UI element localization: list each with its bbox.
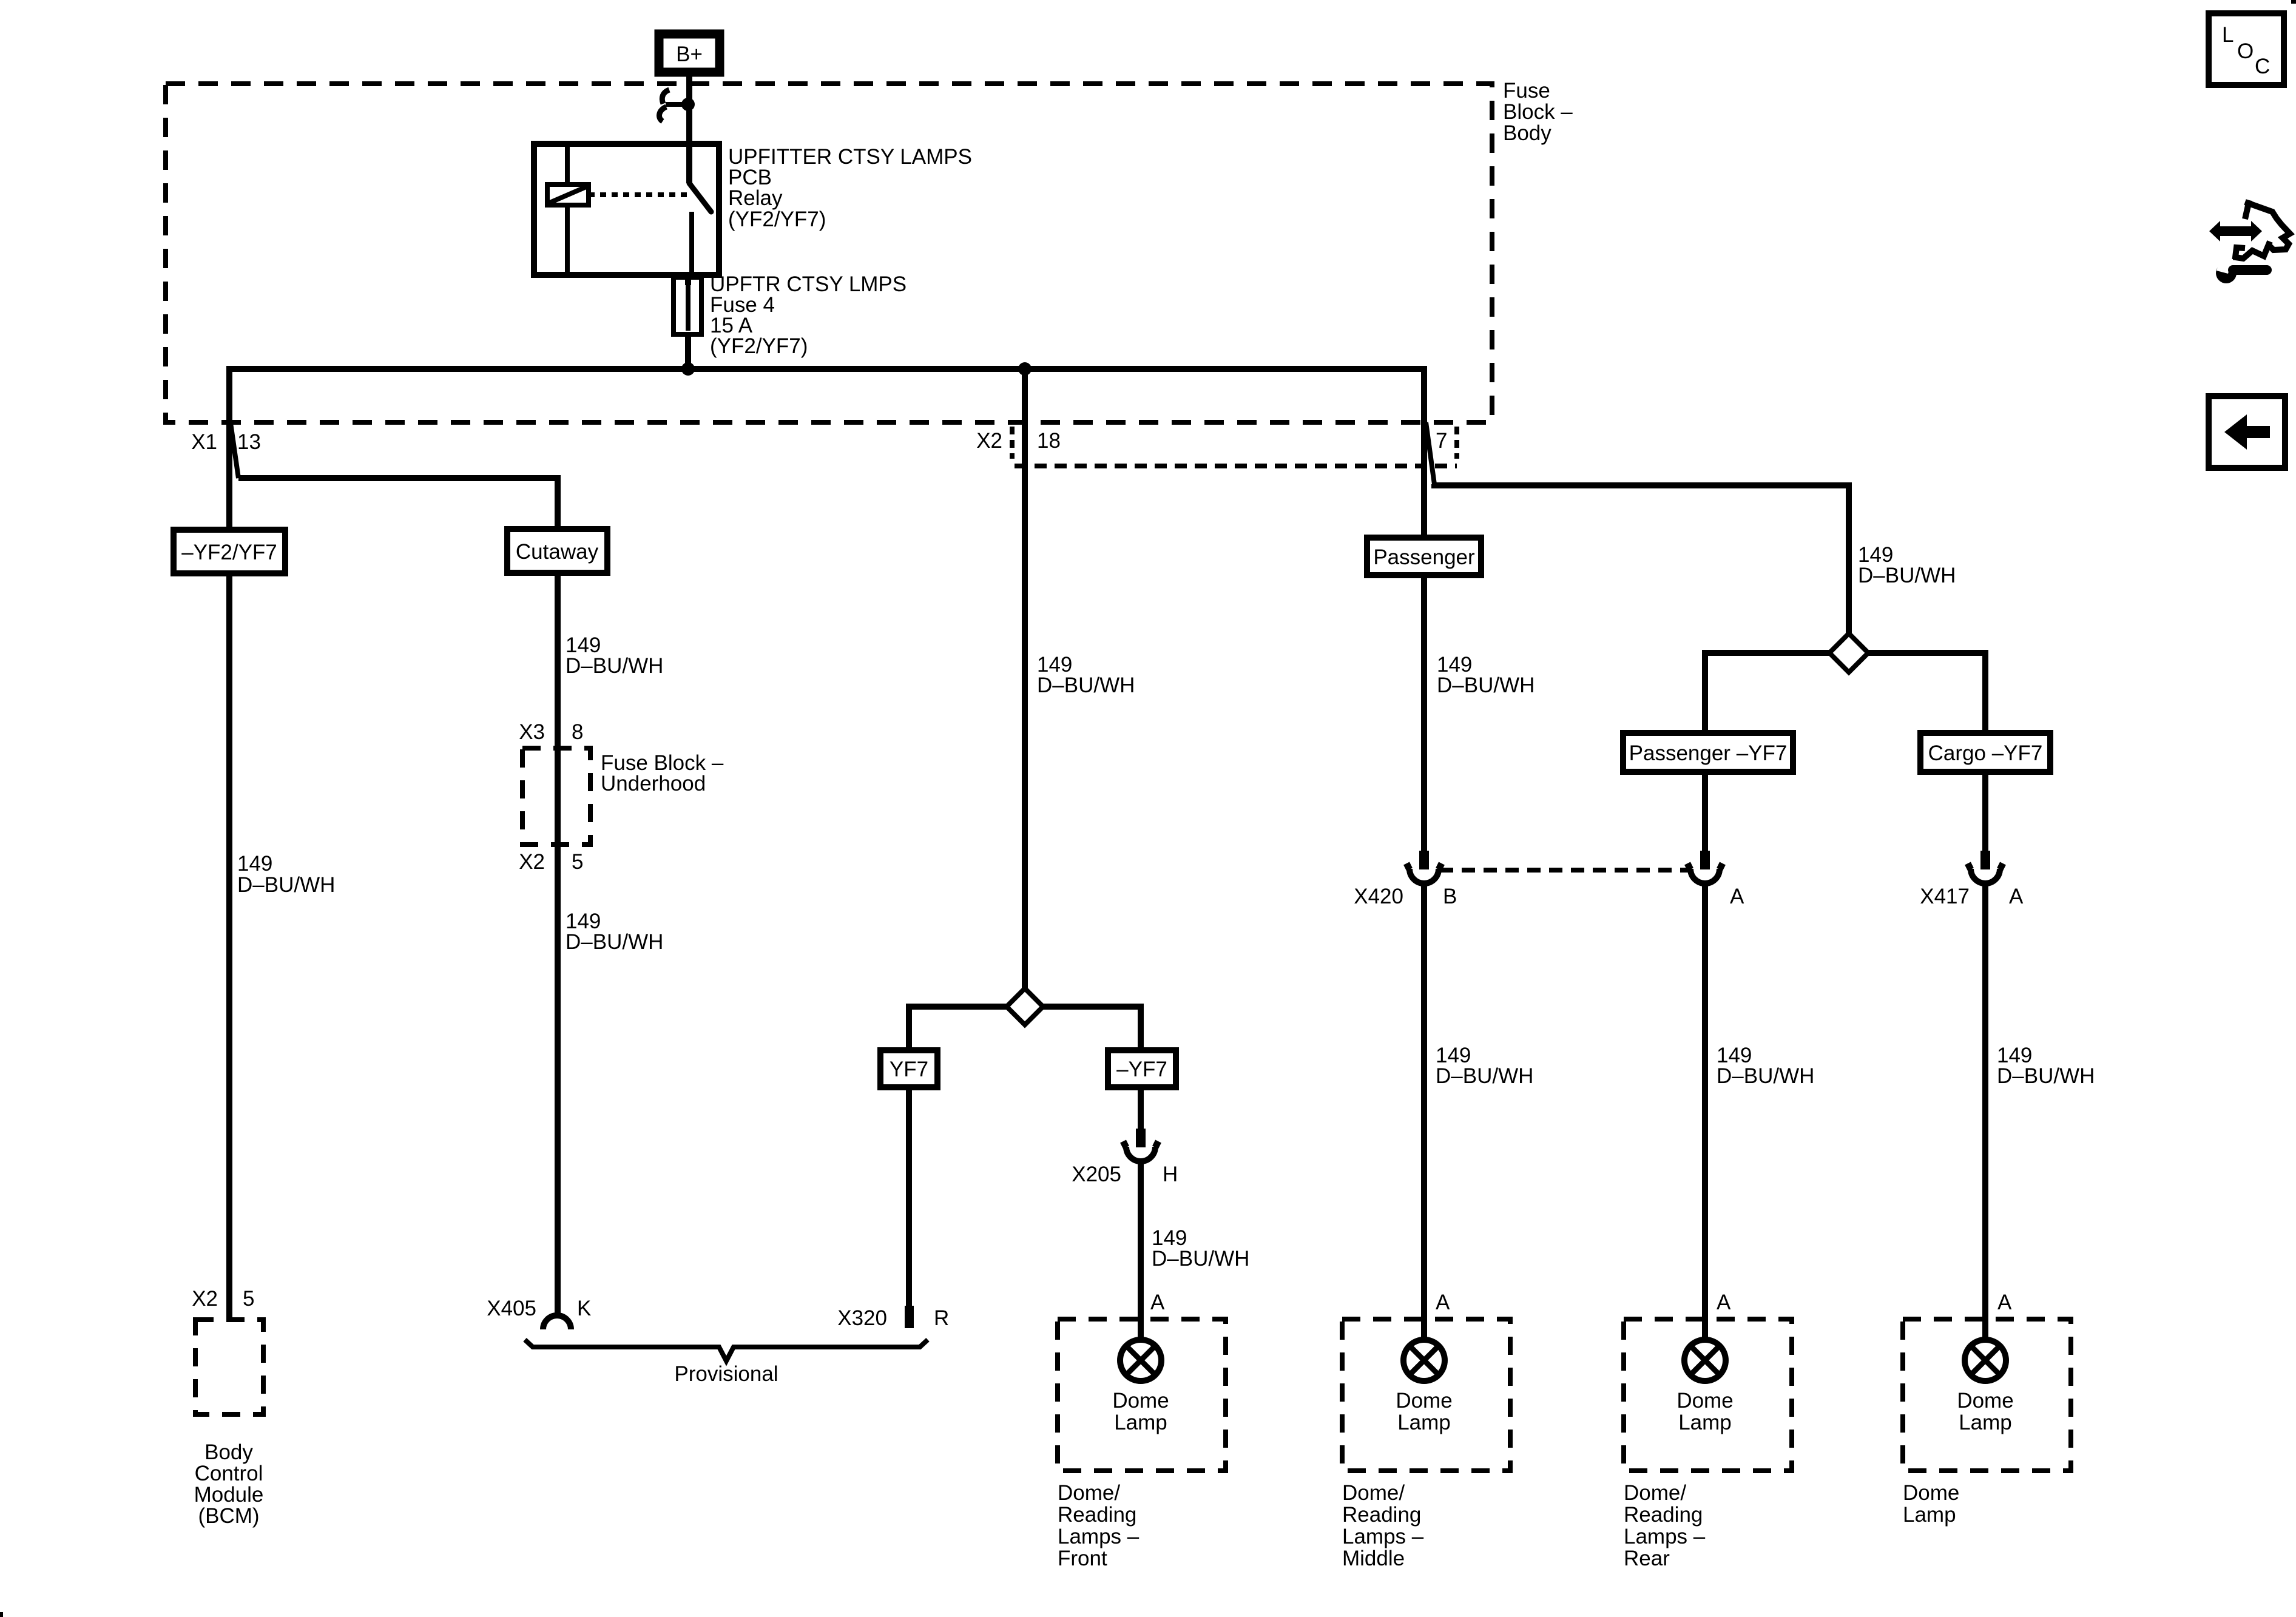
- dome lamp bulb middle: [1403, 1340, 1445, 1381]
- svg-text:Reading: Reading: [1624, 1503, 1703, 1527]
- svg-text:X2: X2: [976, 429, 1002, 453]
- fuse block - body dashed boundary: [166, 84, 1492, 422]
- connector X320 pin R labels: [837, 1306, 949, 1330]
- svg-text:Reading: Reading: [1342, 1503, 1421, 1527]
- connector X1 pin 13 labels: [191, 430, 261, 454]
- wire -YF2/YF7 to BCM: [226, 573, 232, 1320]
- option box -YF7: [1108, 1050, 1176, 1087]
- svg-text:Dome: Dome: [1112, 1389, 1169, 1413]
- svg-text:Body: Body: [204, 1440, 253, 1464]
- wire Passenger box to X420: [1421, 575, 1427, 852]
- fuse block body lower connector dashed edge: [1015, 464, 1457, 468]
- connector X3 pin 8 labels: [519, 720, 583, 744]
- svg-text:13: 13: [237, 430, 261, 454]
- power node B+: [659, 34, 720, 72]
- wire label 149 D-BU/WH middle column: [1037, 653, 1135, 697]
- relay UPFITTER CTSY LAMPS PCB Relay (YF2/YF7) outline: [534, 144, 719, 275]
- dome/reading lamps dashed box front: [1058, 1319, 1226, 1471]
- wire bus to splice diamond front: [1022, 369, 1028, 988]
- svg-text:18: 18: [1037, 429, 1061, 453]
- svg-text:Dome: Dome: [1396, 1389, 1452, 1413]
- svg-text:Lamp: Lamp: [1397, 1411, 1451, 1434]
- svg-text:5: 5: [243, 1287, 254, 1311]
- wire label 149 D-BU/WH front lamp: [1152, 1226, 1249, 1271]
- connector X2 pin 18 labels: [976, 429, 1061, 453]
- svg-text:Dome: Dome: [1903, 1481, 1959, 1505]
- connector X2 separator dash left: [1010, 427, 1015, 459]
- svg-text:Relay: Relay: [728, 186, 783, 210]
- relay coil branch wire upper: [565, 144, 570, 187]
- wire bus to Passenger box: [1421, 369, 1427, 538]
- svg-text:A: A: [1150, 1291, 1165, 1314]
- wire YF7 to X320 pin: [906, 1087, 912, 1307]
- svg-text:Dome/: Dome/: [1342, 1481, 1405, 1505]
- connector X205 pin H labels: [1072, 1163, 1178, 1186]
- connector X417 pin terminal: [1980, 851, 1990, 869]
- pin 7 label: [1436, 429, 1447, 453]
- remove/install tool icon: [2209, 200, 2290, 283]
- svg-text:D–BU/WH: D–BU/WH: [1152, 1247, 1249, 1271]
- svg-text:X2: X2: [192, 1287, 218, 1311]
- svg-text:K: K: [577, 1297, 591, 1320]
- wire Cargo -YF7 to X417: [1982, 772, 1988, 852]
- dome lamp bulb right: [1965, 1340, 2006, 1381]
- lamp assembly label middle: [1342, 1481, 1424, 1570]
- battery feed hook symbol: [659, 90, 688, 121]
- wire diamond to -YF7 box: [1043, 1007, 1141, 1050]
- svg-text:X1: X1: [191, 430, 217, 454]
- svg-text:Rear: Rear: [1624, 1547, 1670, 1570]
- svg-text:Middle: Middle: [1342, 1547, 1405, 1570]
- rear lamp connector pin terminal: [1700, 851, 1710, 869]
- dome lamp bulb front: [1120, 1340, 1161, 1381]
- svg-text:Passenger: Passenger: [1373, 545, 1475, 569]
- svg-text:X405: X405: [487, 1297, 536, 1320]
- svg-text:D–BU/WH: D–BU/WH: [1858, 564, 1956, 587]
- svg-text:A: A: [2009, 885, 2024, 908]
- dome/reading lamps dashed box middle: [1342, 1319, 1510, 1471]
- svg-text:D–BU/WH: D–BU/WH: [566, 654, 663, 678]
- wire label 149 D-BU/WH passenger column: [1437, 653, 1535, 697]
- svg-text:Reading: Reading: [1058, 1503, 1136, 1527]
- wire through underhood block: [555, 748, 561, 845]
- svg-text:Lamp: Lamp: [1903, 1503, 1956, 1527]
- fuse block - underhood dashed box: [522, 748, 590, 845]
- dome lamp text rear: [1676, 1389, 1733, 1434]
- splice diamond right: [1829, 633, 1868, 672]
- relay switch output stub: [689, 212, 694, 274]
- svg-text:H: H: [1163, 1163, 1178, 1186]
- svg-text:Lamp: Lamp: [1959, 1411, 2012, 1434]
- option box Cargo -YF7: [1920, 733, 2050, 772]
- connector X420 pin terminal: [1419, 851, 1429, 869]
- connector X320 pin terminal: [905, 1306, 914, 1328]
- lamp assembly label right: [1903, 1481, 1959, 1527]
- page corner mark top-right: [2291, 0, 2296, 4]
- connector X420 pin B labels: [1354, 885, 1457, 908]
- svg-text:D–BU/WH: D–BU/WH: [1717, 1064, 1814, 1088]
- wire Cutaway to underhood fuse block: [555, 573, 561, 748]
- wire label 149 D-BU/WH right feed: [1858, 543, 1956, 587]
- junction dot fuse-bus: [681, 362, 695, 376]
- svg-text:Underhood: Underhood: [601, 772, 706, 795]
- svg-text:D–BU/WH: D–BU/WH: [1437, 673, 1535, 697]
- option box -YF2/YF7: [174, 530, 285, 573]
- svg-text:Front: Front: [1058, 1547, 1107, 1570]
- pin A label rear lamp: [1717, 1291, 1731, 1314]
- svg-text:Dome: Dome: [1676, 1389, 1733, 1413]
- dome lamp text front: [1112, 1389, 1169, 1434]
- connector X417 pin A labels: [1920, 885, 2024, 908]
- svg-text:149: 149: [237, 852, 272, 876]
- option box YF7: [880, 1050, 937, 1087]
- svg-text:Dome/: Dome/: [1624, 1481, 1686, 1505]
- svg-text:Dome: Dome: [1957, 1389, 2013, 1413]
- svg-text:D–BU/WH: D–BU/WH: [566, 930, 663, 954]
- fuse label: [710, 272, 907, 358]
- fuse UPFTR CTSY LMPS Fuse 4 15A: [674, 277, 701, 334]
- relay coil branch wire lower: [565, 205, 570, 275]
- relay coil: [547, 184, 589, 205]
- svg-text:A: A: [1717, 1291, 1731, 1314]
- rear lamp connector socket arc: [1687, 863, 1723, 883]
- pin 7 pass-through slash: [1426, 422, 1434, 484]
- svg-text:Lamp: Lamp: [1678, 1411, 1732, 1434]
- connector X420 socket arc: [1406, 863, 1442, 883]
- svg-text:Provisional: Provisional: [674, 1362, 778, 1386]
- wire X420 to middle dome lamp: [1421, 883, 1427, 1340]
- body control module dashed box: [195, 1320, 263, 1414]
- wire fuse to bus: [685, 334, 691, 369]
- wire pin13 to -YF2/YF7 box: [226, 423, 232, 530]
- svg-text:Lamp: Lamp: [1114, 1411, 1167, 1434]
- connector X405 pin K labels: [487, 1297, 591, 1320]
- svg-text:7: 7: [1436, 429, 1447, 453]
- svg-text:Dome/: Dome/: [1058, 1481, 1120, 1505]
- page corner mark bottom-left: [0, 1612, 3, 1617]
- body control module label: [194, 1440, 264, 1528]
- svg-text:B+: B+: [676, 42, 703, 66]
- dome/reading lamps dashed box rear: [1624, 1319, 1792, 1471]
- rear connector pin A label: [1730, 885, 1744, 908]
- connector X417 socket arc: [1968, 863, 2003, 883]
- svg-text:Passenger –YF7: Passenger –YF7: [1629, 741, 1788, 765]
- lamp assembly label rear: [1624, 1481, 1706, 1570]
- wire diamond2 to Cargo -YF7 box: [1868, 653, 1985, 733]
- svg-text:X205: X205: [1072, 1163, 1121, 1186]
- connector X420 dashed gang link: [1440, 868, 1690, 873]
- svg-text:Body: Body: [1503, 121, 1551, 145]
- svg-text:Control: Control: [195, 1462, 263, 1485]
- dome lamp bulb rear: [1684, 1340, 1726, 1381]
- svg-text:Lamps –: Lamps –: [1342, 1525, 1424, 1548]
- option box Passenger: [1367, 538, 1481, 575]
- pin 13 pass-through slash: [231, 423, 238, 478]
- svg-text:A: A: [1730, 885, 1744, 908]
- connector separator dash at pin 7: [1454, 427, 1459, 459]
- pin A label middle lamp: [1436, 1291, 1450, 1314]
- wire B+ down to relay: [686, 72, 692, 146]
- svg-text:Fuse: Fuse: [1503, 79, 1550, 103]
- relay switch blade: [689, 183, 711, 212]
- svg-text:X417: X417: [1920, 885, 1970, 908]
- svg-text:YF7: YF7: [890, 1058, 928, 1081]
- junction dot middle branch: [1018, 362, 1032, 376]
- svg-text:8: 8: [572, 720, 583, 744]
- provisional label: [674, 1362, 778, 1386]
- svg-text:Cutaway: Cutaway: [516, 540, 599, 564]
- dome/reading lamps dashed box right: [1903, 1319, 2071, 1471]
- connector X405 half-circle terminal: [543, 1315, 571, 1329]
- svg-text:B: B: [1443, 885, 1457, 908]
- dome lamp text middle: [1396, 1389, 1452, 1434]
- wire label 149 D-BU/WH cutaway lower: [566, 910, 663, 954]
- LOC location-view icon box: [2209, 13, 2284, 85]
- wire diamond to YF7 box: [909, 1007, 1007, 1050]
- svg-text:(YF2/YF7): (YF2/YF7): [728, 208, 826, 231]
- svg-text:–YF7: –YF7: [1116, 1058, 1167, 1081]
- wire pin7 to splice diamond right: [1434, 484, 1849, 633]
- connector X205 pin terminal: [1136, 1129, 1146, 1147]
- option box Cutaway: [507, 529, 607, 573]
- wire relay to fuse: [685, 275, 691, 285]
- junction dot at B+ tap: [681, 98, 695, 111]
- wire diamond2 to Passenger -YF7 box: [1705, 653, 1829, 733]
- svg-text:A: A: [1997, 1291, 2012, 1314]
- relay label: [728, 145, 972, 231]
- svg-text:X420: X420: [1354, 885, 1403, 908]
- wire label 149 D-BU/WH right lamp: [1997, 1044, 2095, 1088]
- wire Passenger -YF7 to rear connector: [1702, 772, 1708, 852]
- bus wire inside fuse block: [229, 369, 1424, 425]
- svg-text:D–BU/WH: D–BU/WH: [237, 873, 335, 897]
- svg-text:X2: X2: [519, 850, 545, 874]
- pin A label front lamp: [1150, 1291, 1165, 1314]
- wire underhood block to X405: [555, 845, 561, 1317]
- lamp assembly label front: [1058, 1481, 1140, 1570]
- connector X2 pin 5 labels at BCM: [192, 1287, 254, 1311]
- back-arrow navigation icon: [2209, 396, 2285, 468]
- svg-text:(BCM): (BCM): [198, 1504, 259, 1528]
- fuse block - body label: [1503, 79, 1573, 145]
- dome lamp text right: [1957, 1389, 2013, 1434]
- provisional brace: [525, 1340, 928, 1361]
- svg-text:5: 5: [572, 850, 583, 874]
- wire label 149 D-BU/WH rear lamp: [1717, 1044, 1814, 1088]
- connector X205 socket arc: [1123, 1141, 1158, 1161]
- svg-text:O: O: [2237, 39, 2254, 63]
- svg-text:C: C: [2255, 55, 2270, 78]
- svg-text:L: L: [2222, 23, 2234, 47]
- svg-text:X3: X3: [519, 720, 545, 744]
- relay switch common wire: [686, 146, 692, 183]
- svg-text:D–BU/WH: D–BU/WH: [1037, 673, 1135, 697]
- wire X417 to right dome lamp: [1982, 883, 1988, 1340]
- splice diamond front: [1007, 988, 1043, 1025]
- svg-text:Block –: Block –: [1503, 100, 1573, 124]
- svg-text:R: R: [934, 1306, 949, 1330]
- pin A label right lamp: [1997, 1291, 2012, 1314]
- option box Passenger -YF7: [1623, 733, 1793, 772]
- svg-text:D–BU/WH: D–BU/WH: [1997, 1064, 2095, 1088]
- svg-text:X320: X320: [837, 1306, 887, 1330]
- branch wire to Cutaway: [238, 478, 558, 529]
- wire label 149 D-BU/WH middle lamp: [1436, 1044, 1533, 1088]
- connector X2 pin 5 labels under underhood block: [519, 850, 583, 874]
- relay actuation dashed link: [589, 192, 689, 197]
- fuse block - underhood label: [601, 751, 724, 795]
- wire label 149 D-BU/WH cutaway upper: [566, 633, 663, 678]
- wire label 149 D-BU/WH left column: [237, 852, 335, 897]
- svg-text:–YF2/YF7: –YF2/YF7: [181, 541, 277, 564]
- svg-text:Module: Module: [194, 1483, 264, 1507]
- wire -YF7 to X205: [1138, 1087, 1144, 1130]
- svg-text:Cargo –YF7: Cargo –YF7: [1928, 741, 2043, 765]
- svg-text:A: A: [1436, 1291, 1450, 1314]
- svg-text:D–BU/WH: D–BU/WH: [1436, 1064, 1533, 1088]
- svg-text:(YF2/YF7): (YF2/YF7): [710, 334, 808, 358]
- wire X205 to front dome lamp: [1138, 1161, 1144, 1340]
- svg-text:Lamps –: Lamps –: [1058, 1525, 1140, 1548]
- wire to rear dome lamp: [1702, 883, 1708, 1340]
- svg-text:Lamps –: Lamps –: [1624, 1525, 1706, 1548]
